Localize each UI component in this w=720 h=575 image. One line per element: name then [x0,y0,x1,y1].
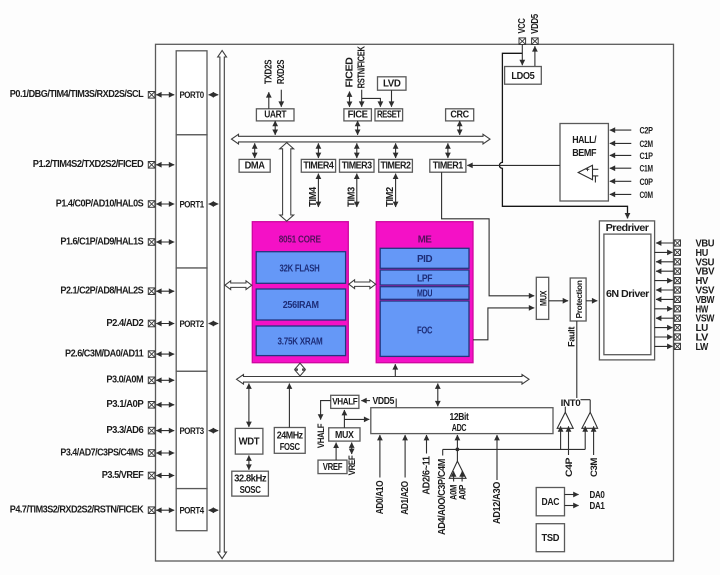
svg-text:PORT0: PORT0 [179,90,203,101]
wire driver pin HV [655,280,673,282]
svg-text:P3.0/A0M: P3.0/A0M [106,375,143,386]
svg-text:VREF: VREF [347,455,357,475]
wire RSTN/FICEK to FICE [361,90,363,107]
svg-text:FOC: FOC [417,326,432,337]
svg-text:MDU: MDU [417,289,432,300]
wire driver pin VBV [656,270,674,272]
block 24MHz FOSC [274,428,305,454]
pin LW pad [674,342,709,353]
svg-text:LDO5: LDO5 [511,71,535,82]
wire comparator input C2P [610,129,632,131]
svg-text:32.8kHz: 32.8kHz [234,474,267,485]
svg-text:TIMER3: TIMER3 [342,160,373,171]
wire driver pin LV [655,336,673,338]
wire C4P [568,426,570,455]
svg-text:6N Driver: 6N Driver [606,289,650,300]
port block PORT2 [176,268,207,371]
svg-text:P1.4/C0P/AD10/HAL0S: P1.4/C0P/AD10/HAL0S [56,198,144,209]
wire TIMER2 to bus [395,143,397,158]
wire pin P0.1 to port [156,94,174,96]
wire VHALF out [321,401,331,420]
svg-text:DA1: DA1 [590,501,606,512]
block PID [380,248,469,268]
wire AD1/A2O [404,435,406,478]
block LPF [380,270,469,285]
block TIMER2 [379,159,413,172]
wire C3M [593,426,595,455]
svg-text:VREF: VREF [323,462,343,473]
svg-text:P2.4/AD2: P2.4/AD2 [106,318,144,329]
wire TIMER1 to MUX [442,172,535,296]
block VREF [318,460,347,474]
wire VDD5 to VHALF [361,400,370,402]
system bus (top horizontal) [232,134,491,144]
svg-text:C1M: C1M [640,164,653,175]
wire TIM4 io [317,174,319,207]
port block PORT0 [176,51,207,135]
pin VSV pad [674,286,715,297]
svg-text:P3.4/AD7/C3PS/C4MS: P3.4/AD7/C3PS/C4MS [60,447,144,458]
block DAC [536,488,564,516]
svg-text:PORT3: PORT3 [179,426,203,437]
wire MUX branch to ADC [344,418,369,420]
block HALL/BEMF [560,124,608,202]
wire AD0/A1O [379,435,381,478]
svg-text:HALL/: HALL/ [572,135,597,146]
svg-text:C3M: C3M [589,457,599,477]
svg-text:Fault: Fault [566,327,576,347]
wire driver pin VSU [656,261,674,263]
svg-text:TXD2S: TXD2S [264,59,275,84]
svg-text:24MHz: 24MHz [277,431,304,442]
pin P1.2 pad [33,159,155,170]
svg-text:FOSC: FOSC [280,442,300,453]
wire AD2/6~11 [426,435,428,454]
svg-text:P0.1/DBG/TIM4/TIM3S/RXD2S/SCL: P0.1/DBG/TIM4/TIM3S/RXD2S/SCL [10,89,144,100]
wire VREF to MUX [335,443,337,461]
pin P3.4 pad [60,447,155,458]
svg-text:P4.7/TIM3S2/RXD2S2/RSTN/FICEK: P4.7/TIM3S2/RXD2S2/RSTN/FICEK [10,505,145,516]
wire INT0 node [565,400,590,413]
wire MUX to Protection [549,300,568,302]
svg-text:C2P: C2P [640,126,654,137]
wire pin P1.2 to port [156,164,174,166]
port block PORT4 [176,489,207,531]
comparator CMP3 [582,412,598,428]
wire FICE to bus [357,121,359,135]
wire WDT to SOSC [248,456,250,470]
wire RSTN/FICEK branch to RESET [362,98,381,106]
wire op-amp out [456,449,458,461]
svg-text:ME: ME [418,235,433,246]
svg-text:LVD: LVD [383,79,401,90]
block 12Bit ADC [371,408,553,434]
wire LVD to RESET [391,90,393,107]
wire PORT1 to internal bus [209,203,219,205]
svg-text:C0M: C0M [640,190,653,201]
block FOC [380,301,469,356]
pin VBV pad [674,267,715,278]
wire comparator input C2M [610,142,632,144]
wire node to CMP3 [584,426,586,449]
svg-text:VHALF: VHALF [332,396,358,406]
block 8051 CORE [252,222,348,363]
wire VCC to LDO5 [521,45,523,66]
wire node to CMP4 [560,426,562,449]
svg-text:PORT2: PORT2 [179,319,203,330]
wire driver pin HU [655,251,673,253]
wire driver pin LU [655,327,673,329]
svg-text:VDD5: VDD5 [530,13,541,34]
svg-text:TIMER2: TIMER2 [381,160,411,171]
pin VSU pad [674,257,714,268]
wire driver pin VSV [656,289,674,291]
connector 8051 to bottom bus [295,363,305,376]
svg-text:Predriver: Predriver [606,223,650,234]
svg-text:MUX: MUX [335,430,354,441]
wire TXD2S out [268,92,270,109]
wire FOSC to bus [288,384,290,428]
svg-text:AD2/6~11: AD2/6~11 [422,455,433,494]
wire driver pin VBW [656,298,674,300]
pin VDD5 pad [530,13,541,44]
wire UART to bus [274,121,276,135]
op-amp A0 [449,461,466,478]
connector 8051 to ME [349,280,376,289]
svg-text:P2.6/C3M/DA0/AD11: P2.6/C3M/DA0/AD11 [65,348,144,359]
chip outline frame [156,44,674,561]
pin VCC pad [517,18,528,44]
pin P2.6 pad [65,348,155,359]
svg-text:P3.5/VREF: P3.5/VREF [102,470,144,481]
pin P3.5 pad [102,470,155,481]
block CRC [446,109,474,121]
svg-text:DMA: DMA [245,160,265,171]
wire analog node horizontal [443,448,586,450]
wire A0P [461,471,463,481]
block UART [256,109,294,121]
svg-text:FICE: FICE [348,110,369,121]
wire node to ADC [456,435,458,449]
svg-text:P2.1/C2P/AD8/HAL2S: P2.1/C2P/AD8/HAL2S [60,286,144,297]
block 3.75K XRAM [256,326,345,356]
wire A0M [453,471,455,481]
connector bus to 8051 top [280,143,294,222]
block MDU [380,287,469,300]
wire AD12/A3O [496,435,498,480]
svg-text:MUX: MUX [538,290,548,306]
wire bus to ME [394,364,396,376]
wire driver pin VBU [656,242,674,244]
svg-text:AD0/A1O: AD0/A1O [375,480,386,514]
wire VDD5 to ADC [395,399,397,408]
wire PORT0 to internal bus [209,94,219,96]
svg-text:CRC: CRC [450,110,469,121]
wire TIMER1 to bus [447,143,449,158]
svg-text:RXD2S: RXD2S [276,59,287,84]
pin HW pad [674,304,709,315]
block RESET [375,109,403,121]
pin VBW pad [674,295,715,306]
svg-text:Protection: Protection [574,280,584,318]
wire pin P1.4 to port [156,203,174,205]
wire TIM2 io [395,174,397,207]
svg-text:DA0: DA0 [590,490,605,501]
svg-text:LPF: LPF [417,273,433,284]
wire Protection to Predriver [586,300,597,302]
svg-text:TIM2: TIM2 [385,187,396,207]
pin P1.4 pad [56,198,155,209]
pin VBU pad [674,239,714,250]
svg-text:FICED: FICED [344,57,355,87]
wire LDO5 to VDD5 [534,46,536,66]
wire PORT3 to internal bus [209,430,219,432]
wire comparator input C0P [610,180,632,182]
wire PORT4 to internal bus [209,509,219,511]
svg-text:C4P: C4P [564,458,574,477]
svg-text:ADC: ADC [452,423,467,434]
svg-text:TIMER4: TIMER4 [303,160,334,171]
svg-text:TIM4: TIM4 [308,186,319,207]
block TIMER4 [301,159,335,172]
wire pin P3.5 to port [156,475,174,477]
block 6N Driver [604,234,651,355]
block LVD [378,77,407,90]
block Predriver [599,221,654,360]
wire HALL to TIMER1 [467,164,560,166]
block VHALF [331,395,359,408]
svg-text:TIMER1: TIMER1 [433,160,464,171]
data bus (bottom horizontal) [237,375,530,385]
pin LV pad [674,333,709,344]
wire comparator input C0M [610,193,632,195]
pin P3.3 pad [106,425,155,436]
svg-text:256IRAM: 256IRAM [283,300,319,311]
svg-text:AD4/A0O/C3P/C4M: AD4/A0O/C3P/C4M [437,459,448,535]
wire pin P3.3 to port [156,430,174,432]
svg-text:AD1/A2O: AD1/A2O [400,481,411,515]
wire comparator input C1P [610,154,632,156]
wire Fault [576,321,578,400]
svg-text:3.75K XRAM: 3.75K XRAM [278,337,323,348]
label INT0 [561,398,581,408]
pin VSW pad [674,314,715,325]
connector left bus to 8051 [225,281,252,290]
svg-text:A0P: A0P [457,485,467,500]
wire pin P2.6 to port [156,353,174,355]
node analog junction [456,448,460,452]
pin P3.1 pad [106,399,155,410]
wire pin P3.1 to port [156,404,174,406]
block TIMER1 [430,159,466,172]
wire driver pin VSW [656,317,674,319]
svg-text:DAC: DAC [542,497,560,508]
port block PORT3 [176,371,207,488]
block ME [376,222,473,363]
svg-text:C1P: C1P [640,151,654,162]
block 32.8kHz SOSC [232,471,269,496]
svg-text:AD12/A3O: AD12/A3O [492,481,503,524]
svg-text:12Bit: 12Bit [450,412,470,423]
wire PORT2 to internal bus [209,323,219,325]
wire ADC to bus [437,384,439,407]
wire TIMER3 to bus [356,143,358,158]
wire DMA to bus [254,143,256,158]
pin P0.1 pad [10,89,155,100]
wire TIMER4 to bus [317,143,319,158]
pin P2.1 pad [60,286,155,297]
svg-text:PID: PID [417,254,433,265]
wire AD4/A0O/C3P/C4M [442,449,444,455]
pin P4.7 pad [10,505,155,516]
wire CRC to bus [459,121,461,135]
wire pin P2.4 to port [156,323,174,325]
wire pin P3.0 to port [156,379,174,381]
block 256IRAM [256,289,345,320]
wire TIM3 io [356,174,358,207]
svg-text:LW: LW [696,342,710,353]
pin P2.4 pad [106,318,155,329]
block MUX (analog) [329,428,360,441]
svg-text:PORT4: PORT4 [179,506,204,517]
block FICE [344,109,372,121]
block 32K FLASH [256,252,345,284]
block LDO5 [505,67,542,85]
svg-text:P3.1/A0P: P3.1/A0P [106,399,144,410]
internal peripheral bus (left vertical) [218,51,227,559]
block MUX (output) [536,277,548,319]
wire comparator input C1M [610,167,632,169]
pin HV pad [674,276,709,287]
svg-text:C2M: C2M [640,139,653,150]
wire pin P1.6 to port [156,241,174,243]
svg-text:VDD5: VDD5 [373,396,395,407]
svg-text:P3.3/AD6: P3.3/AD6 [106,425,144,436]
pin LU pad [674,323,708,334]
block TSD [536,524,564,552]
wire FICED [349,92,351,107]
block DMA [239,159,270,172]
svg-text:PORT1: PORT1 [179,199,204,210]
wire WDT to bus [248,384,250,428]
pin P3.0 pad [106,375,155,386]
svg-text:VCC: VCC [517,18,528,33]
pin HU pad [674,248,708,259]
svg-text:BEMF: BEMF [572,148,596,159]
wire driver pin HW [655,308,673,310]
block TIMER3 [340,159,375,172]
wire pin P3.4 to port [156,452,174,454]
wire DA0 [565,494,579,496]
svg-text:RESET: RESET [377,110,401,121]
svg-text:INT0: INT0 [561,398,581,408]
svg-text:WDT: WDT [239,437,260,448]
svg-text:SOSC: SOSC [240,485,261,496]
wire pin P2.1 to port [156,290,174,292]
svg-text:TIM3: TIM3 [346,186,357,207]
wire VREF io [351,443,353,455]
wire driver pin LW [655,345,673,347]
wire RXD2S in [280,90,282,107]
svg-text:TSD: TSD [542,533,560,544]
svg-text:RSTN/FICEK: RSTN/FICEK [357,46,368,88]
wire MUX to VHALF [343,410,345,428]
port block PORT1 [176,135,207,268]
wire DA1 [565,505,579,507]
svg-text:UART: UART [264,110,286,121]
svg-text:P1.6/C1P/AD9/HAL1S: P1.6/C1P/AD9/HAL1S [60,236,144,247]
block Protection [570,278,586,321]
wire FOC to MUX [473,308,534,340]
svg-text:8051 CORE: 8051 CORE [279,235,322,246]
svg-text:P1.2/TIM4S2/TXD2S2/FICED: P1.2/TIM4S2/TXD2S2/FICED [33,159,144,170]
svg-text:C0P: C0P [640,177,654,188]
comparator CMP4 [557,412,573,428]
wire pin P4.7 to port [156,509,174,511]
pin P1.6 pad [60,236,155,247]
wire VCC rail to Predriver [499,53,627,218]
svg-text:32K FLASH: 32K FLASH [280,263,320,274]
svg-text:VHALF: VHALF [316,423,326,448]
block WDT [235,428,263,454]
